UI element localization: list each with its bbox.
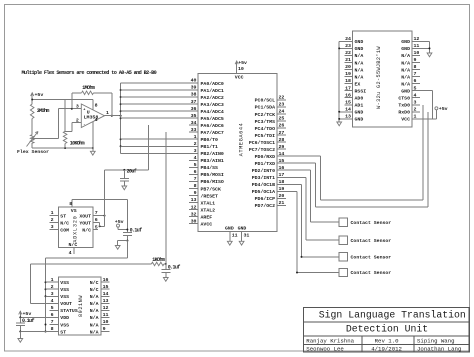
- svg-text:PD3/INT1: PD3/INT1: [252, 175, 275, 181]
- module pin 24 GND: [345, 40, 353, 42]
- mcu pin 30 AVCC: [189, 223, 198, 225]
- mcu pin 14 PD0/RXD: [277, 155, 286, 157]
- svg-text:PB0/T0: PB0/T0: [201, 137, 219, 143]
- svg-text:4: 4: [194, 155, 197, 161]
- mcu pin 37 PA3/ADC3: [189, 103, 198, 105]
- junction: [92, 147, 94, 149]
- contact sensor S1: [339, 218, 347, 226]
- svg-text:GND: GND: [401, 39, 410, 45]
- svg-text:VS: VS: [71, 208, 77, 214]
- ground: [115, 246, 120, 250]
- junction: [301, 256, 303, 258]
- junction: [338, 47, 340, 49]
- svg-text:PA3/ADC3: PA3/ADC3: [201, 102, 224, 108]
- module pin 16 AD0: [345, 97, 353, 99]
- junction: [45, 295, 47, 297]
- svg-text:2: 2: [76, 117, 79, 123]
- mcu pin 9 /RESET: [189, 195, 198, 197]
- module pin 10 N/A: [412, 54, 420, 56]
- wire: [94, 92, 112, 94]
- junction: [120, 96, 122, 98]
- junction: [64, 147, 66, 149]
- module pin 2 RxD0: [412, 111, 420, 113]
- svg-text:CTS0: CTS0: [398, 96, 410, 102]
- svg-text:PC1/SDA: PC1/SDA: [255, 105, 275, 111]
- wire: [57, 109, 59, 139]
- svg-text:11: 11: [414, 43, 420, 49]
- junction: [123, 169, 125, 171]
- wire tap: [32, 138, 58, 140]
- svg-text:ST: ST: [60, 329, 66, 335]
- wire vss bus: [45, 258, 47, 332]
- svg-text:AD0: AD0: [355, 96, 364, 102]
- title block box: [304, 308, 470, 353]
- svg-text:8: 8: [69, 201, 72, 207]
- mcu pin 18 PD4/OC1B: [277, 183, 286, 185]
- svg-text:/RESET: /RESET: [201, 193, 219, 199]
- gyro pin 13 N/A: [101, 302, 110, 304]
- svg-text:PA5/ADC5: PA5/ADC5: [201, 116, 224, 122]
- mcu pin 34 PA6/ADC6: [189, 124, 198, 126]
- svg-text:N/A: N/A: [90, 308, 99, 314]
- svg-text:3: 3: [194, 148, 197, 154]
- accel pin 5 N/C: [93, 229, 98, 231]
- svg-text:26: 26: [279, 123, 285, 129]
- svg-text:VSS: VSS: [60, 280, 69, 286]
- wire: [121, 110, 198, 112]
- junction: [19, 316, 21, 318]
- svg-text:27: 27: [279, 130, 285, 136]
- title block lines: [304, 321, 470, 323]
- module pin 20 N/A: [345, 69, 353, 71]
- junction: [429, 47, 431, 49]
- pin 4 stub: [92, 122, 94, 148]
- junction: [71, 108, 73, 110]
- svg-text:Detection Unit: Detection Unit: [346, 323, 428, 334]
- svg-text:4: 4: [69, 250, 72, 256]
- junction: [45, 324, 47, 326]
- svg-text:Seonwoo Lee: Seonwoo Lee: [306, 346, 344, 353]
- wire vdd: [20, 316, 49, 318]
- wire: [420, 40, 430, 42]
- svg-text:GND: GND: [355, 39, 364, 45]
- wire: [148, 125, 150, 170]
- svg-text:YOUT: YOUT: [79, 220, 91, 226]
- wire contact 3: [277, 183, 302, 185]
- svg-text:4: 4: [414, 92, 417, 98]
- mcu pin 40 PA0/ADC0: [189, 82, 198, 84]
- module pin 4 CTS0: [412, 97, 420, 99]
- svg-text:Contact Sensor: Contact Sensor: [351, 255, 392, 261]
- svg-text:8: 8: [95, 102, 98, 108]
- module pin 1 VCC: [412, 118, 420, 120]
- svg-text:Flex Sensor: Flex Sensor: [17, 149, 49, 155]
- svg-text:AREF: AREF: [201, 214, 213, 220]
- wire: [121, 82, 198, 84]
- svg-text:3: 3: [51, 291, 54, 297]
- mcu pin 17 PD3/INT1: [277, 176, 286, 178]
- svg-text:PD5/OC1A: PD5/OC1A: [252, 189, 275, 195]
- svg-text:17: 17: [345, 85, 351, 91]
- svg-text:16: 16: [103, 277, 109, 283]
- svg-text:3MOhm: 3MOhm: [37, 108, 50, 114]
- svg-text:12: 12: [103, 305, 109, 311]
- wire vss1: [46, 281, 50, 283]
- accel pin 2 N/C: [50, 222, 59, 224]
- svg-text:N/A: N/A: [401, 74, 410, 80]
- junction: [31, 99, 33, 101]
- module pin 3 TxD0: [412, 104, 420, 106]
- capacitor 0.1uf accel: [123, 232, 132, 234]
- svg-text:38: 38: [191, 92, 197, 98]
- svg-text:1KOhm: 1KOhm: [152, 257, 165, 263]
- mcu pin 15 PD1/TXD: [277, 162, 286, 164]
- wire: [31, 93, 33, 104]
- svg-text:N/C: N/C: [69, 242, 78, 248]
- svg-text:PB6/MISO: PB6/MISO: [201, 179, 224, 185]
- mcu pin 29 PC7/TOSC2: [277, 148, 286, 150]
- mcu pin 1 PB0/T0: [189, 138, 198, 140]
- mcu pin 35 PA5/ADC5: [189, 117, 198, 119]
- svg-text:8: 8: [414, 64, 417, 70]
- wire vss3: [46, 295, 50, 297]
- svg-text:14: 14: [103, 291, 109, 297]
- svg-text:N/A: N/A: [90, 301, 99, 307]
- resistor 1MOhm: [82, 91, 94, 95]
- svg-text:14: 14: [345, 106, 351, 112]
- junction: [120, 110, 122, 112]
- svg-text:22: 22: [345, 50, 351, 56]
- mcu pin 20 PD6/ICP: [277, 197, 286, 199]
- wire: [121, 117, 198, 119]
- svg-text:40: 40: [191, 78, 197, 84]
- svg-text:PB1/T1: PB1/T1: [201, 144, 219, 150]
- accel pin 3 COM: [50, 229, 59, 231]
- svg-text:20uf: 20uf: [127, 168, 137, 174]
- svg-text:+5v: +5v: [439, 106, 448, 112]
- svg-text:GND: GND: [401, 46, 410, 52]
- module pin 18 EX: [345, 83, 353, 85]
- svg-text:VCC: VCC: [401, 117, 410, 123]
- flex sensor RFlex: [30, 135, 34, 144]
- svg-text:+: +: [83, 108, 85, 112]
- svg-text:34: 34: [191, 120, 197, 126]
- mcu pin 25 PC3/TMS: [277, 120, 286, 122]
- wire: [30, 263, 151, 265]
- svg-text:VDD: VDD: [60, 315, 69, 321]
- module pin 5 GND: [412, 90, 420, 92]
- wire: [121, 96, 198, 98]
- svg-text:3: 3: [51, 224, 54, 230]
- wire to pin3: [58, 108, 81, 110]
- accel U3 ADXL320 box: [58, 207, 93, 248]
- mcu pin 2 PB1/T1: [189, 145, 198, 147]
- wire gnd bus: [338, 41, 340, 122]
- gyro pin 15 N/C: [101, 288, 110, 290]
- module pin 11 GND: [412, 47, 420, 49]
- ground: [337, 122, 342, 126]
- contact sensor S2: [339, 236, 347, 244]
- wire: [123, 181, 125, 186]
- svg-text:8921NW: 8921NW: [78, 295, 84, 317]
- svg-text:GND: GND: [225, 226, 234, 232]
- module pin 14 GND: [345, 111, 353, 113]
- svg-text:N/A: N/A: [401, 67, 410, 73]
- resistor 3MOhm: [30, 104, 34, 119]
- svg-text:PA7/ADC7: PA7/ADC7: [201, 130, 224, 136]
- mcu pin 23 PC1/SDA: [277, 106, 286, 108]
- svg-text:N/A: N/A: [355, 67, 364, 73]
- svg-text:7: 7: [194, 176, 197, 182]
- mcu pin 6 PB5/MOSI: [189, 173, 198, 175]
- module pin 19 N/A: [345, 76, 353, 78]
- wire: [46, 257, 128, 259]
- power +5v module: [435, 107, 438, 110]
- junction: [111, 115, 113, 117]
- svg-text:3: 3: [414, 99, 417, 105]
- svg-text:XTAL1: XTAL1: [201, 200, 216, 206]
- svg-text:10KOhm: 10KOhm: [70, 140, 85, 146]
- wire bottom rail: [32, 147, 93, 149]
- wire vcc: [420, 118, 436, 120]
- svg-text:N/A: N/A: [90, 294, 99, 300]
- pin 8 stub: [92, 100, 94, 111]
- svg-text:19: 19: [345, 71, 351, 77]
- svg-text:29: 29: [279, 144, 285, 150]
- svg-text:ADXL320: ADXL320: [73, 215, 79, 242]
- svg-text:10: 10: [414, 50, 420, 56]
- module pin 17 RSSI: [345, 90, 353, 92]
- mcu pin 24 PC2/TCK: [277, 113, 286, 115]
- ground: [427, 53, 432, 57]
- svg-text:RSSI: RSSI: [355, 89, 367, 95]
- mcu pin 26 PC4/TDO: [277, 127, 286, 129]
- junction: [19, 331, 21, 333]
- wire st: [20, 331, 49, 333]
- svg-text:35: 35: [191, 113, 197, 119]
- svg-text:PC3/TMS: PC3/TMS: [255, 119, 275, 125]
- svg-text:24: 24: [345, 36, 351, 42]
- svg-text:N/A: N/A: [90, 329, 99, 335]
- svg-text:PC7/TOSC2: PC7/TOSC2: [249, 147, 275, 153]
- svg-text:25: 25: [279, 116, 285, 122]
- gyro pin 2 VSS: [50, 288, 59, 290]
- ground: [239, 241, 244, 245]
- capacitor 0.1uf gyro: [19, 317, 21, 323]
- ground: [163, 278, 168, 282]
- gyro pin 5 STATUS: [50, 309, 59, 311]
- svg-text:20: 20: [279, 193, 285, 199]
- junction: [296, 272, 298, 274]
- svg-text:GND: GND: [238, 226, 247, 232]
- svg-text:AD1: AD1: [355, 103, 364, 109]
- wire vs: [72, 198, 127, 200]
- svg-text:20: 20: [345, 64, 351, 70]
- mcu pin 22 PC0/SCL: [277, 99, 286, 101]
- svg-text:GND: GND: [401, 89, 410, 95]
- svg-text:PB3/AIN1: PB3/AIN1: [201, 158, 224, 164]
- svg-text:33: 33: [191, 127, 197, 133]
- svg-text:13: 13: [345, 114, 351, 120]
- svg-text:1: 1: [51, 277, 54, 283]
- module pin 8 N/A: [412, 69, 420, 71]
- svg-text:VOUT: VOUT: [60, 301, 72, 307]
- svg-text:PC4/TDO: PC4/TDO: [255, 126, 275, 132]
- junction: [45, 288, 47, 290]
- svg-text:2: 2: [51, 217, 54, 223]
- svg-text:PD1/TXD: PD1/TXD: [255, 161, 275, 167]
- svg-text:VSS: VSS: [60, 294, 69, 300]
- svg-text:1: 1: [194, 134, 197, 140]
- mcu pin 28 PC6/TOSC1: [277, 141, 286, 143]
- svg-text:4/19/2012: 4/19/2012: [371, 346, 402, 353]
- junction: [104, 215, 106, 217]
- svg-text:11: 11: [103, 312, 109, 318]
- gyro pin 10 N/A: [101, 324, 110, 326]
- mcu pin 3 PB2/AIN0: [189, 152, 198, 154]
- svg-text:21: 21: [345, 57, 351, 63]
- svg-text:PA1/ADC1: PA1/ADC1: [201, 88, 224, 94]
- svg-text:5: 5: [95, 224, 98, 230]
- mcu pin 11 GND: [229, 232, 231, 242]
- svg-text:+5v: +5v: [238, 60, 247, 66]
- svg-text:13: 13: [191, 197, 197, 203]
- wire: [117, 228, 119, 230]
- junction: [45, 281, 47, 283]
- junction: [120, 117, 122, 119]
- svg-text:0.1uf: 0.1uf: [168, 264, 181, 270]
- svg-text:PD4/OC1B: PD4/OC1B: [252, 182, 275, 188]
- wire: [126, 199, 128, 232]
- resistor 1KOhm: [151, 262, 164, 266]
- svg-text:0.1uf: 0.1uf: [22, 318, 35, 324]
- wire 10K upper: [64, 100, 66, 132]
- junction: [45, 331, 47, 333]
- svg-text:9: 9: [194, 190, 197, 196]
- wire: [31, 143, 33, 148]
- junction: [126, 240, 128, 242]
- svg-text:Rev 1.0: Rev 1.0: [375, 337, 399, 344]
- power +5v gyro: [19, 311, 22, 314]
- mcu pin 27 PC5/TDI: [277, 134, 286, 136]
- svg-text:37: 37: [191, 99, 197, 105]
- svg-text:COM: COM: [60, 227, 69, 233]
- svg-text:24: 24: [279, 109, 285, 115]
- wire: [104, 170, 106, 226]
- wire bus: [120, 83, 122, 153]
- op-amp U1 LM358: [81, 104, 104, 128]
- wire vout: [30, 302, 49, 304]
- module pin 21 N/A: [345, 62, 353, 64]
- svg-text:36: 36: [191, 106, 197, 112]
- svg-text:N/C: N/C: [90, 280, 99, 286]
- svg-text:8: 8: [51, 326, 54, 332]
- svg-text:1: 1: [51, 210, 54, 216]
- svg-text:Multiple Flex Sensors are conn: Multiple Flex Sensors are connected to A…: [22, 70, 157, 76]
- wire vss2: [46, 288, 50, 290]
- svg-text:32: 32: [191, 211, 197, 217]
- gyro pin 6 VDD: [50, 316, 59, 318]
- mcu pin 7 PB6/MISO: [189, 180, 198, 182]
- wire: [19, 332, 21, 339]
- resistor 10KOhm: [63, 131, 67, 143]
- accel pin 1 ST: [50, 215, 59, 217]
- junction: [165, 263, 167, 265]
- svg-text:31: 31: [244, 232, 250, 238]
- module pin 13 GND: [345, 118, 353, 120]
- wire: [165, 272, 167, 277]
- svg-text:39: 39: [191, 85, 197, 91]
- svg-text:PD6/ICP: PD6/ICP: [255, 196, 275, 202]
- gyro pin 14 N/A: [101, 295, 110, 297]
- svg-text:N/C: N/C: [82, 227, 91, 233]
- capacitor 20uf: [123, 170, 125, 178]
- svg-text:EX: EX: [355, 81, 361, 87]
- svg-text:11: 11: [232, 232, 238, 238]
- wire output: [105, 115, 121, 117]
- svg-text:4: 4: [95, 117, 98, 123]
- gyro pin 12 N/A: [101, 309, 110, 311]
- svg-text:N/A: N/A: [355, 74, 364, 80]
- gyro pin 16 N/C: [101, 281, 110, 283]
- svg-text:+5v: +5v: [23, 311, 32, 317]
- module pin 12 GND: [412, 40, 420, 42]
- svg-text:N/A: N/A: [90, 322, 99, 328]
- wire +5v rail: [32, 99, 93, 101]
- svg-text:2: 2: [414, 106, 417, 112]
- mcu pin 36 PA4/ADC4: [189, 110, 198, 112]
- svg-text:ST: ST: [60, 213, 66, 219]
- svg-text:N/A: N/A: [401, 81, 410, 87]
- junction: [126, 229, 128, 231]
- wire xout: [93, 215, 105, 217]
- svg-text:21: 21: [279, 200, 285, 206]
- svg-text:VSS: VSS: [60, 322, 69, 328]
- wire pin2 link: [72, 122, 82, 124]
- svg-text:15: 15: [345, 99, 351, 105]
- mcu pin 4 PB3/AIN1: [189, 159, 198, 161]
- svg-text:23: 23: [345, 43, 351, 49]
- svg-text:XTAL2: XTAL2: [201, 207, 216, 213]
- svg-text:7: 7: [414, 71, 417, 77]
- svg-text:1MOhm: 1MOhm: [82, 85, 95, 91]
- svg-text:3: 3: [76, 104, 79, 110]
- wire yout: [93, 222, 100, 224]
- svg-text:N/A: N/A: [401, 60, 410, 66]
- svg-text:30: 30: [191, 218, 197, 224]
- junction: [120, 115, 122, 117]
- svg-text:1: 1: [414, 114, 417, 120]
- wire: [64, 144, 66, 149]
- svg-text:18: 18: [345, 78, 351, 84]
- wire: [19, 326, 21, 332]
- junction: [120, 138, 122, 140]
- svg-text:GND: GND: [355, 46, 364, 52]
- gyro pin 8 ST: [50, 331, 59, 333]
- svg-text:Contact Sensor: Contact Sensor: [351, 270, 392, 276]
- svg-text:PC0/SCL: PC0/SCL: [255, 98, 275, 104]
- mcu pin 10 VCC: [236, 62, 238, 74]
- svg-text:PD2/INT0: PD2/INT0: [252, 168, 275, 174]
- mcu pin 32 AREF: [189, 216, 198, 218]
- contact sensor S3: [339, 253, 347, 261]
- svg-text:U: U: [87, 109, 90, 115]
- junction: [120, 145, 122, 147]
- module pin 6 N/A: [412, 83, 420, 85]
- module pin 23 GND: [345, 47, 353, 49]
- svg-text:+5v: +5v: [115, 219, 124, 225]
- svg-text:GND: GND: [355, 117, 364, 123]
